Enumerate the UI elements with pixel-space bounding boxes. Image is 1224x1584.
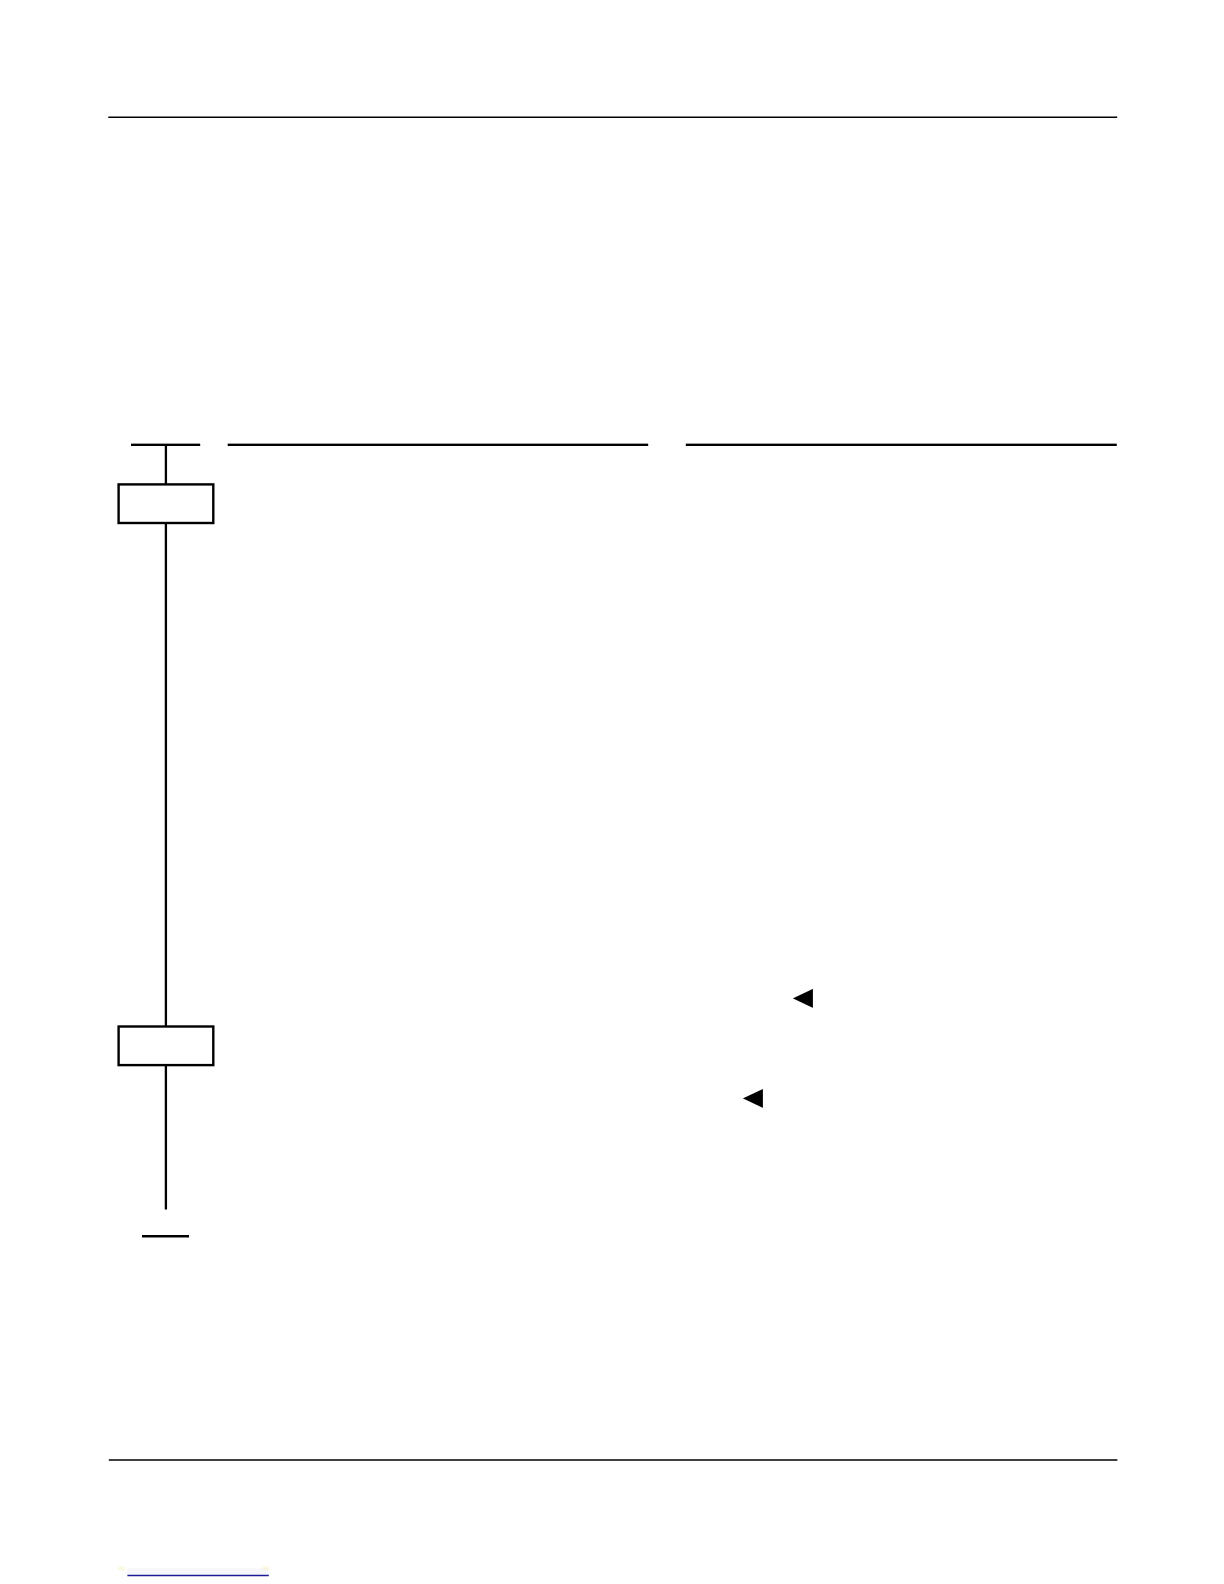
header rule — [108, 116, 1117, 118]
marker triangle 1 — [793, 989, 813, 1008]
node A top tap bar — [131, 444, 200, 446]
terminal bar — [142, 1235, 189, 1238]
wire from box B1 to box B2 — [165, 523, 167, 1027]
box B2 — [119, 1027, 214, 1066]
box B1 — [119, 484, 214, 523]
marker triangle 2 — [743, 1089, 763, 1108]
link text faint haze — [128, 1569, 269, 1575]
wire from node A to box B1 — [165, 445, 167, 485]
wire from box B2 down — [165, 1065, 167, 1209]
rail segment left — [228, 444, 649, 446]
footer rule — [109, 1459, 1118, 1461]
link underline — [127, 1575, 268, 1577]
rail segment right — [686, 444, 1117, 446]
